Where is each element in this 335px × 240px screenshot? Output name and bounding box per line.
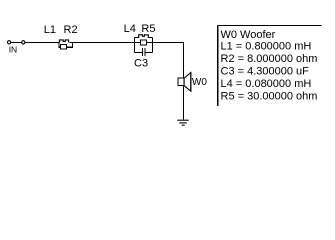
svg-text:R2: R2 (64, 24, 78, 36)
resistor R5 (140, 40, 146, 45)
wire out of R5 (147, 42, 152, 44)
inductor L1 (59, 40, 68, 43)
inductor L4 (134, 36, 138, 38)
wire stub left of R2 (59, 43, 61, 48)
wire into R5 (134, 42, 140, 44)
wire L1 to L4 network (69, 42, 134, 44)
wire network to speaker drop (152, 43, 183, 79)
svg-text:L1 = 0.800000 mH: L1 = 0.800000 mH (221, 40, 312, 52)
node left of L4/R5/C3 network (133, 37, 135, 52)
svg-text:C3 = 4.300000 uF: C3 = 4.300000 uF (221, 65, 310, 77)
svg-text:L4 = 0.080000 mH: L4 = 0.080000 mH (221, 78, 312, 90)
svg-text:R5 = 30.00000 ohm: R5 = 30.00000 ohm (221, 90, 318, 102)
ground (177, 120, 188, 125)
wire IN to L1 (25, 42, 60, 44)
speaker W0 (178, 72, 191, 91)
svg-text:R5: R5 (141, 23, 155, 35)
capacitor C3 (134, 48, 152, 56)
svg-text:L4: L4 (124, 23, 136, 35)
svg-text:W0: W0 (192, 77, 207, 88)
svg-text:C3: C3 (134, 57, 148, 69)
resistor R2 (60, 44, 66, 49)
value table box (218, 26, 322, 106)
svg-text:L1: L1 (44, 24, 56, 36)
node right of L4/R5/C3 network (151, 37, 153, 52)
svg-text:R2 = 8.000000 ohm: R2 = 8.000000 ohm (221, 53, 318, 65)
input terminal IN (7, 41, 24, 44)
wire stub right of R2 (67, 43, 73, 48)
svg-text:W0 Woofer: W0 Woofer (221, 29, 276, 41)
svg-text:IN: IN (9, 44, 18, 54)
wire speaker to ground (183, 86, 185, 120)
